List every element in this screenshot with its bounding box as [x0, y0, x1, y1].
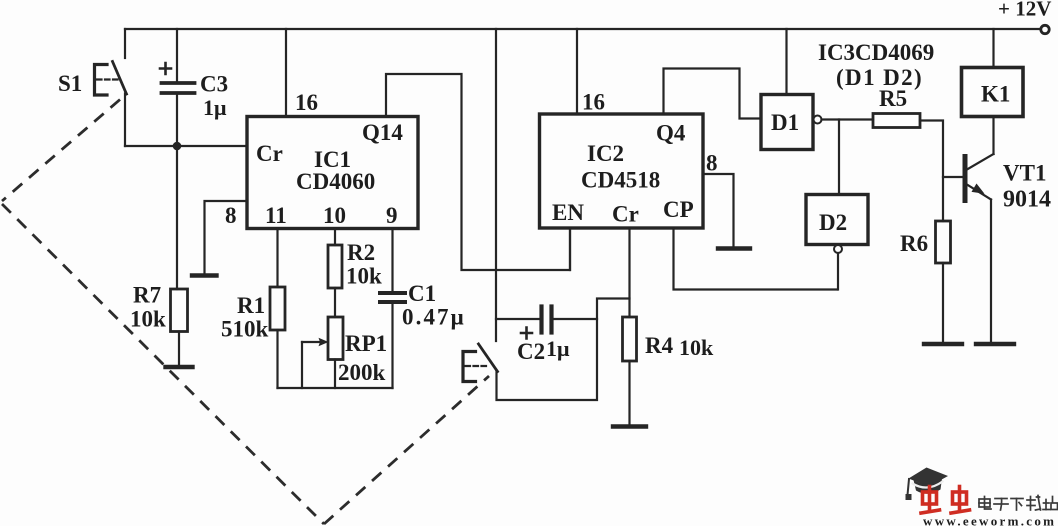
svg-text:9014: 9014	[1003, 187, 1051, 213]
watermark cn text dianzi xiazaizhan	[979, 496, 1058, 511]
resistor R1	[270, 287, 285, 330]
wire K1 top drop	[992, 29, 994, 68]
wire C2 right	[554, 318, 597, 320]
wire R1 to bottom rail	[276, 330, 278, 388]
wire pin10 to R2	[334, 229, 336, 246]
wire pin11 to R1	[276, 229, 278, 288]
svg-text:S1: S1	[58, 71, 82, 96]
ground R6	[924, 342, 962, 346]
svg-text:D1: D1	[771, 110, 799, 135]
wire node row to IC1 Cr	[125, 145, 247, 147]
D1 output bubble	[814, 116, 822, 124]
wire R5 right to base column	[920, 121, 943, 222]
wire Cr pin to R4	[628, 229, 630, 318]
wire Q4 route to D1 input	[664, 69, 760, 119]
svg-text:1μ: 1μ	[203, 95, 227, 120]
wire R6 to ground	[942, 263, 944, 342]
inverter D2 box	[806, 195, 868, 245]
dashed link left vertex to bottom vertex	[2, 204, 324, 524]
wire D2 output down to CP row	[837, 253, 839, 290]
RP1 wiper arrow	[302, 341, 322, 343]
transistor VT1	[965, 154, 994, 201]
svg-text:C2: C2	[517, 339, 545, 364]
svg-text:R5: R5	[879, 86, 907, 111]
watermark red character chong 2	[951, 487, 970, 514]
resistor R5	[873, 114, 920, 128]
wire S1 bottom to node	[124, 94, 126, 147]
svg-text:200k: 200k	[338, 360, 386, 385]
svg-text:10k: 10k	[679, 335, 714, 360]
svg-text:CP: CP	[663, 197, 694, 222]
wire collector to K1	[992, 117, 994, 155]
wire oscillator bottom rail	[278, 387, 393, 389]
wire Q14 route to EN row	[386, 74, 570, 270]
capacitor C3	[162, 83, 195, 93]
svg-text:CD4518: CD4518	[581, 168, 660, 193]
node junction dot	[173, 142, 182, 151]
wire S2 bottom loop to C2 right node	[497, 299, 630, 401]
wire D1 output to R5	[822, 118, 874, 120]
potentiometer RP1	[328, 317, 343, 360]
svg-text:R6: R6	[900, 231, 928, 256]
label C3 plus	[160, 63, 171, 74]
svg-text:R4: R4	[645, 333, 674, 358]
dashed mechanical link S1 to left vertex	[2, 100, 489, 525]
wire C1 to bottom rail	[391, 304, 393, 388]
wire D1 top drop from rail	[785, 29, 787, 95]
svg-text:8: 8	[225, 203, 237, 228]
svg-text:K1: K1	[981, 82, 1010, 107]
D2 output bubble	[834, 245, 842, 253]
ground IC2 pin8	[718, 246, 750, 250]
wire long drop from rail to S2	[495, 29, 497, 341]
svg-text:16: 16	[295, 90, 318, 115]
svg-text:0.47μ: 0.47μ	[402, 305, 466, 330]
wire C2 left	[496, 318, 539, 320]
resistor R6	[936, 221, 951, 263]
wire IC2 pin16 drop	[576, 29, 578, 114]
wire C3 bottom to node	[176, 93, 178, 146]
wire IC1 pin16 drop	[285, 29, 287, 116]
svg-text:C3: C3	[200, 72, 228, 97]
svg-text:IC3CD4069: IC3CD4069	[818, 40, 934, 65]
svg-text:+ 12V: + 12V	[998, 0, 1051, 21]
capacitor C2	[542, 307, 552, 333]
ground IC1 pin8	[192, 273, 217, 277]
svg-text:VT1: VT1	[1003, 161, 1046, 186]
watermark red character chong 1	[921, 487, 940, 514]
svg-text:8: 8	[706, 151, 718, 176]
switch S1	[95, 62, 127, 96]
label C2 plus	[521, 328, 532, 339]
wire C3 top drop	[176, 29, 178, 81]
svg-text:www.eeworm.com: www.eeworm.com	[923, 514, 1056, 526]
wire R7 to ground	[178, 332, 180, 366]
relay K1 box	[962, 68, 1024, 117]
wire R2 to RP1	[334, 288, 336, 317]
IC U1 box IC1 CD4060	[247, 117, 418, 229]
watermark graduation cap	[906, 468, 949, 501]
svg-text:10: 10	[323, 203, 346, 228]
ground R7	[166, 365, 193, 369]
svg-text:R2: R2	[347, 240, 375, 265]
dashed link bottom vertex to S2	[324, 376, 489, 524]
svg-text:R7: R7	[133, 283, 161, 308]
wire D1 out junction to D2 input	[838, 120, 840, 195]
svg-text:Q4: Q4	[656, 121, 686, 146]
wire emitter to ground	[990, 200, 992, 343]
capacitor C1	[380, 293, 405, 302]
wire RP1 to bottom rail	[334, 360, 336, 389]
resistor R2	[328, 245, 342, 288]
svg-text:C1: C1	[408, 281, 436, 306]
wire IC1 pin8 to ground	[205, 201, 248, 273]
wire EN pin drop	[569, 229, 571, 271]
wire base tap	[943, 176, 963, 178]
svg-text:EN: EN	[552, 200, 584, 225]
svg-text:Q14: Q14	[362, 120, 403, 145]
wire IC2 pin8 to ground	[703, 174, 734, 246]
svg-text:CD4060: CD4060	[296, 169, 375, 194]
svg-text:10k: 10k	[346, 264, 382, 289]
ground VT1 emitter	[976, 342, 1014, 346]
svg-text:D2: D2	[819, 210, 847, 235]
wire +12V supply rail	[125, 28, 1041, 30]
svg-text:Cr: Cr	[612, 202, 639, 227]
svg-text:1μ: 1μ	[546, 336, 570, 361]
wire node to R7	[176, 146, 178, 289]
wire pin9 to C1	[391, 229, 393, 292]
svg-text:9: 9	[386, 203, 398, 228]
wire CP pin to D2 output row	[674, 229, 838, 290]
+12V terminal	[1041, 25, 1049, 33]
wire R4 to ground	[628, 361, 630, 424]
inverter D1 box	[761, 95, 813, 150]
wire S1 top drop	[124, 29, 126, 58]
svg-text:RP1: RP1	[345, 331, 387, 356]
switch S2	[463, 344, 498, 382]
svg-text:510k: 510k	[221, 317, 269, 342]
IC2 box CD4518	[540, 114, 704, 228]
svg-text:Cr: Cr	[256, 141, 283, 166]
svg-text:IC2: IC2	[587, 141, 624, 166]
svg-text:11: 11	[265, 203, 287, 228]
svg-text:16: 16	[582, 90, 605, 115]
ground R4	[613, 424, 646, 428]
resistor R4	[623, 317, 637, 361]
wire RP1 wiper to bottom rail	[301, 342, 303, 388]
svg-text:R1: R1	[237, 293, 265, 318]
svg-text:10k: 10k	[130, 307, 166, 332]
resistor R7	[171, 289, 188, 332]
